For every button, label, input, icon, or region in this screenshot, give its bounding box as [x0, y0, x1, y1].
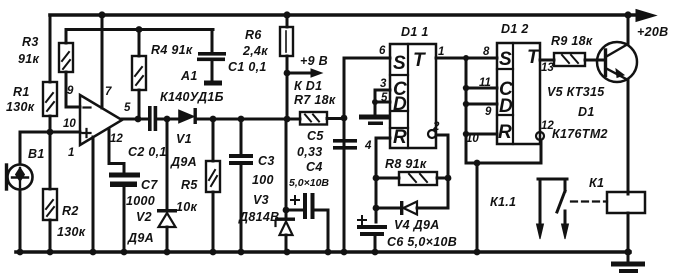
svg-text:С7: С7 [141, 178, 158, 192]
wire detector line [197, 118, 300, 121]
flipflop D1.2 box [497, 43, 540, 144]
svg-text:130к: 130к [57, 225, 86, 239]
flipflop D1.1 box [390, 44, 436, 148]
resistor R5 [212, 119, 215, 252]
wire top supply rail [50, 13, 642, 17]
resistor R8 [376, 177, 448, 180]
svg-text:+9 В: +9 В [300, 54, 328, 68]
svg-text:Т: Т [527, 47, 540, 68]
wire D1.1 pin1 to D1.2 pin8 [436, 57, 497, 60]
node R7/C5/S [341, 115, 348, 122]
wire op-amp pin1 [92, 137, 95, 252]
svg-text:1: 1 [68, 147, 74, 159]
diode V4 [376, 207, 448, 210]
svg-text:1000: 1000 [126, 194, 155, 208]
svg-text:R8 91к: R8 91к [385, 157, 427, 171]
node V3 [284, 116, 291, 123]
resistor R4 [138, 30, 141, 120]
svg-text:Т: Т [413, 50, 426, 71]
zener V3 [285, 119, 288, 252]
node C4 tap on V3 line [283, 207, 290, 214]
svg-text:C2 0,1: C2 0,1 [128, 145, 167, 159]
svg-text:7: 7 [105, 86, 112, 98]
wire D1.1 R pin4 [376, 138, 390, 222]
svg-text:R7 18к: R7 18к [294, 93, 336, 107]
wire drop to ground rail [476, 163, 479, 252]
capacitor C6 [357, 225, 387, 229]
svg-text:5: 5 [124, 102, 131, 114]
svg-text:V4 Д9А: V4 Д9А [394, 218, 440, 232]
wire op-amp -input [66, 106, 80, 109]
svg-text:+20В: +20В [637, 25, 668, 39]
svg-text:R4 91к: R4 91к [151, 43, 193, 57]
wire +20V arrowhead [636, 10, 656, 22]
wire V5 collector [627, 15, 630, 44]
svg-text:100: 100 [252, 173, 274, 187]
dashed link K1.1 to K1 [571, 200, 607, 202]
resistor R6 [286, 15, 289, 119]
wire D1.2 C pin11 [466, 87, 497, 90]
node pin7 top rail [98, 11, 105, 18]
wire D1.2 input column [465, 58, 468, 163]
svg-text:К176ТМ2: К176ТМ2 [552, 127, 608, 141]
capacitor C2 [148, 106, 152, 131]
svg-text:11: 11 [479, 77, 491, 89]
svg-text:91к: 91к [18, 52, 40, 66]
node R8 left [373, 175, 380, 182]
svg-text:C1 0,1: C1 0,1 [228, 60, 267, 74]
svg-text:С5: С5 [307, 129, 324, 143]
node R4 output [135, 116, 142, 123]
svg-text:В1: В1 [28, 147, 45, 161]
svg-text:R5: R5 [181, 178, 198, 192]
wire D1.2 R pin10 [466, 133, 497, 136]
ground rail junction dots [17, 249, 24, 256]
node junction R1/R2/mic/+input [47, 129, 54, 136]
node R5 [210, 116, 217, 123]
capacitor C5 [343, 118, 346, 252]
wire +9V arrow to D1 [287, 72, 313, 75]
resistor R2 [43, 189, 57, 220]
diode V1 [179, 111, 194, 123]
wire D1.1 pin2 feedback [428, 130, 436, 138]
svg-text:12: 12 [110, 133, 123, 145]
svg-text:R6: R6 [245, 28, 262, 42]
resistor R9 [554, 53, 585, 66]
wire op-amp +input [50, 131, 80, 134]
wire D1.2 pin12 return [466, 140, 541, 163]
svg-text:V1: V1 [176, 132, 192, 146]
wire C2 to V1 [157, 118, 179, 121]
wire op-amp pin 7 [101, 15, 104, 108]
ground C/D pins [359, 115, 389, 120]
wire op-amp output [122, 118, 148, 121]
svg-text:R3: R3 [22, 35, 39, 49]
resistor R1 [43, 82, 57, 116]
svg-text:6: 6 [379, 45, 386, 57]
svg-text:10: 10 [63, 118, 76, 130]
svg-text:К1.1: К1.1 [490, 195, 516, 209]
wire V5 emitter [627, 80, 630, 194]
svg-text:2: 2 [432, 121, 440, 133]
wire bias line [66, 28, 213, 31]
svg-text:А1: А1 [180, 69, 198, 83]
wire left column R1/R2 line [49, 15, 52, 252]
svg-text:R: R [498, 122, 512, 143]
svg-text:D1 2: D1 2 [501, 22, 529, 36]
capacitor C7 [109, 173, 140, 178]
svg-text:V5 КТ315: V5 КТ315 [547, 85, 605, 99]
svg-text:D1 1: D1 1 [401, 25, 429, 39]
svg-text:10к: 10к [176, 200, 198, 214]
svg-text:V3: V3 [253, 193, 269, 207]
svg-text:К1: К1 [589, 176, 604, 190]
op-amp U1 triangle [80, 95, 122, 145]
svg-text:S: S [393, 53, 406, 74]
svg-text:3: 3 [380, 78, 387, 90]
svg-text:R9 18к: R9 18к [551, 34, 593, 48]
svg-text:D: D [499, 96, 513, 117]
svg-text:10: 10 [466, 133, 479, 145]
wire D1.1 C pin3 [375, 90, 390, 114]
node +9V [284, 70, 291, 77]
resistor R7 [300, 112, 327, 125]
microphone B1 [8, 165, 33, 190]
contact K1.1 [538, 179, 567, 226]
svg-text:Д9А: Д9А [127, 231, 154, 245]
svg-text:R: R [393, 127, 407, 148]
svg-text:4: 4 [364, 140, 372, 152]
capacitor C4 [286, 210, 328, 252]
svg-text:R1: R1 [13, 85, 30, 99]
svg-text:130к: 130к [6, 100, 35, 114]
wire bottom ground rail [16, 250, 630, 254]
svg-text:2,4к: 2,4к [242, 44, 268, 58]
svg-text:13: 13 [541, 62, 554, 74]
node V4 left [373, 205, 380, 212]
resistor R3 [65, 30, 68, 108]
svg-text:9: 9 [67, 85, 74, 97]
svg-text:D1: D1 [578, 105, 595, 119]
svg-text:1: 1 [438, 46, 444, 58]
microphone B1 wires [20, 132, 50, 252]
svg-text:Д814В: Д814В [238, 210, 279, 224]
node R4 on bias line [136, 26, 143, 33]
svg-text:8: 8 [483, 46, 490, 58]
svg-text:S: S [499, 49, 512, 70]
node C3 [238, 116, 245, 123]
svg-text:С6 5,0×10В: С6 5,0×10В [387, 235, 457, 249]
ground symbol bottom right [627, 252, 630, 262]
wire D1.1 D pin5 [375, 101, 390, 104]
svg-text:С4: С4 [306, 160, 323, 174]
svg-text:Д9А: Д9А [170, 155, 197, 169]
svg-text:К D1: К D1 [294, 79, 322, 93]
wire D1.2 pin13 out [540, 59, 554, 62]
capacitor C1 [211, 30, 214, 82]
svg-text:0,33: 0,33 [297, 145, 323, 159]
wire D1.2 D pin9 [466, 103, 497, 106]
svg-text:5,0×10В: 5,0×10В [289, 177, 329, 189]
svg-text:R2: R2 [62, 204, 79, 218]
node V2 top [164, 116, 171, 123]
diode V2 [166, 119, 169, 252]
capacitor C3 [240, 119, 243, 252]
svg-text:К140УД1Б: К140УД1Б [160, 90, 224, 104]
relay K1 coil [607, 192, 645, 213]
transistor V5 [597, 42, 637, 82]
node R6 top rail [283, 11, 290, 18]
svg-text:5: 5 [381, 92, 388, 104]
svg-text:D: D [393, 94, 407, 115]
svg-text:9: 9 [485, 106, 492, 118]
svg-text:С3: С3 [258, 154, 275, 168]
wire D1.1 S input [344, 58, 390, 118]
svg-text:V2: V2 [136, 210, 152, 224]
svg-text:12: 12 [541, 120, 554, 132]
wire op-amp pin12 jog [109, 129, 124, 172]
